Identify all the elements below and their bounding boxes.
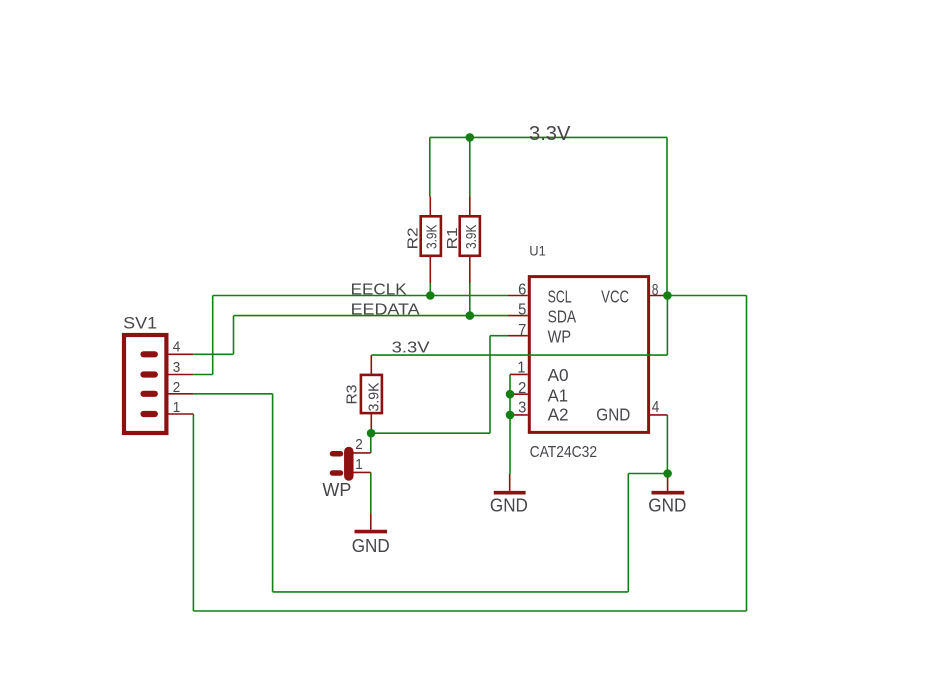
wire 3.3V rail to R1 (469, 137, 471, 196)
junction dot EEDATA/R1 (466, 311, 475, 320)
svg-text:2: 2 (355, 436, 363, 453)
svg-text:R2: R2 (404, 227, 421, 249)
svg-text:R1: R1 (444, 227, 461, 249)
svg-text:3.3V: 3.3V (392, 340, 430, 357)
svg-text:VCC: VCC (601, 286, 629, 306)
U1 pin 3 A2 lead (510, 414, 528, 416)
svg-text:A2: A2 (548, 404, 569, 424)
svg-text:EEDATA: EEDATA (351, 301, 420, 318)
U1 pin 2 A1 lead (510, 393, 528, 395)
svg-text:3.9K: 3.9K (463, 225, 480, 250)
SV1 pin 4 lead (166, 353, 193, 355)
svg-text:3.3V: 3.3V (529, 123, 571, 145)
junction dot right GND (663, 469, 672, 478)
wire EEDATA vertical to SV1 pin4 (233, 316, 235, 355)
wire R2 bottom to EECLK (429, 283, 431, 296)
U1 pin 1 A0 lead (510, 373, 528, 375)
U1 pin 7 WP lead (508, 335, 528, 337)
svg-text:1: 1 (355, 456, 363, 473)
svg-text:1: 1 (517, 360, 525, 377)
junction dot 3.3V/R1 (466, 133, 475, 142)
svg-text:2: 2 (173, 379, 181, 396)
svg-text:4: 4 (652, 399, 660, 416)
jumper WP pad 2 (333, 451, 341, 457)
svg-text:2: 2 (518, 380, 526, 397)
wire EEDATA horizontal (234, 315, 509, 317)
wire IC pin4 down to GND (666, 415, 668, 474)
wire right side vertical (746, 296, 748, 612)
wire 3.3V top rail (430, 136, 667, 138)
svg-text:7: 7 (518, 322, 526, 339)
wire SV1 pin2 horizontal (193, 393, 273, 395)
SV1 pin 4 pad (144, 351, 155, 357)
svg-text:WP: WP (548, 326, 572, 346)
wire R3 junction to jumper pin2 (370, 433, 372, 453)
jumper WP body (322, 452, 351, 501)
junction dot A1 (506, 390, 515, 399)
svg-text:6: 6 (518, 282, 526, 299)
U1 pin 8 VCC lead (650, 295, 667, 297)
junction dot A2 (506, 411, 515, 420)
wire gnd run horizontal (273, 591, 629, 593)
svg-text:A1: A1 (548, 385, 569, 405)
wire EECLK vertical to SV1 pin3 (212, 296, 214, 375)
wire jumper pin1 to GND (370, 472, 372, 513)
U1 pin 5 SDA lead (508, 315, 528, 317)
jumper WP pin 1 lead (353, 471, 371, 473)
wire SV1 pin4 stub (193, 353, 233, 355)
svg-text:4: 4 (173, 338, 181, 355)
SV1 pin 3 pad (144, 371, 155, 377)
svg-text:1: 1 (173, 399, 181, 416)
wire A0-A2 bus vertical (509, 374, 511, 473)
svg-text:3: 3 (173, 359, 181, 376)
resistor R3 (343, 355, 382, 433)
wire R1 bottom to EEDATA (469, 283, 471, 316)
svg-text:EECLK: EECLK (351, 281, 407, 298)
svg-text:3: 3 (518, 400, 526, 417)
wire SV1 pin1 vertical (192, 414, 194, 611)
svg-text:3.9K: 3.9K (365, 383, 382, 412)
SV1 pin 2 lead (166, 393, 193, 395)
SV1 pin 3 lead (166, 374, 193, 376)
wire VCC junction down (666, 296, 668, 356)
resistor R1 (444, 197, 480, 284)
svg-text:8: 8 (652, 282, 659, 299)
jumper WP pad 1 (333, 470, 341, 476)
wire 3.3V rail down right side to VCC (666, 137, 668, 295)
svg-text:GND: GND (352, 536, 390, 556)
wire 3.3V rail to R2 (429, 137, 431, 196)
SV1 pin 1 pad (144, 411, 155, 417)
svg-text:5: 5 (518, 302, 526, 319)
svg-text:WP: WP (322, 480, 351, 500)
ground symbol below A2 (490, 473, 528, 515)
ground symbol below WP jumper (352, 513, 390, 556)
wire bottom horizontal (193, 610, 746, 612)
U1 pin 4 GND lead (650, 414, 667, 416)
wire VCC junction right (667, 295, 746, 297)
svg-text:GND: GND (596, 404, 630, 424)
wire pin2 vertical down (272, 394, 274, 592)
svg-text:U1: U1 (529, 242, 546, 258)
jumper WP pin 2 lead (353, 452, 371, 454)
svg-text:GND: GND (490, 495, 528, 515)
op-amp U1 CAT24C32 body (529, 242, 648, 460)
wire gnd run to right GND (628, 473, 667, 475)
svg-text:CAT24C32: CAT24C32 (530, 444, 598, 461)
SV1 pin 2 pad (144, 391, 155, 397)
U1 pin 6 SCL lead (508, 295, 528, 297)
wire WP horizontal to R3 (371, 432, 490, 434)
wire gnd run vertical up (627, 474, 629, 592)
wire WP vertical (489, 336, 491, 434)
SV1 pin 1 lead (166, 413, 193, 415)
junction dot R3 bottom (367, 429, 376, 438)
svg-text:SCL: SCL (548, 286, 572, 306)
svg-text:A0: A0 (548, 365, 569, 385)
wire EECLK horizontal (213, 295, 509, 297)
svg-text:R3: R3 (343, 385, 360, 405)
resistor R2 (404, 197, 441, 284)
junction dot VCC pin 8 (663, 291, 672, 300)
svg-text:GND: GND (648, 495, 686, 515)
svg-text:SDA: SDA (548, 307, 577, 327)
wire WP pin7 stub (490, 335, 509, 337)
ground symbol below IC pin 4 (648, 474, 686, 516)
wire 3.3V across IC to R3 (371, 354, 667, 356)
connector SV1 (123, 314, 166, 433)
wire SV1 pin3 stub (193, 374, 213, 376)
svg-text:SV1: SV1 (123, 314, 157, 332)
svg-text:3.9K: 3.9K (424, 225, 441, 250)
junction dot EECLK/R2 (426, 291, 435, 300)
